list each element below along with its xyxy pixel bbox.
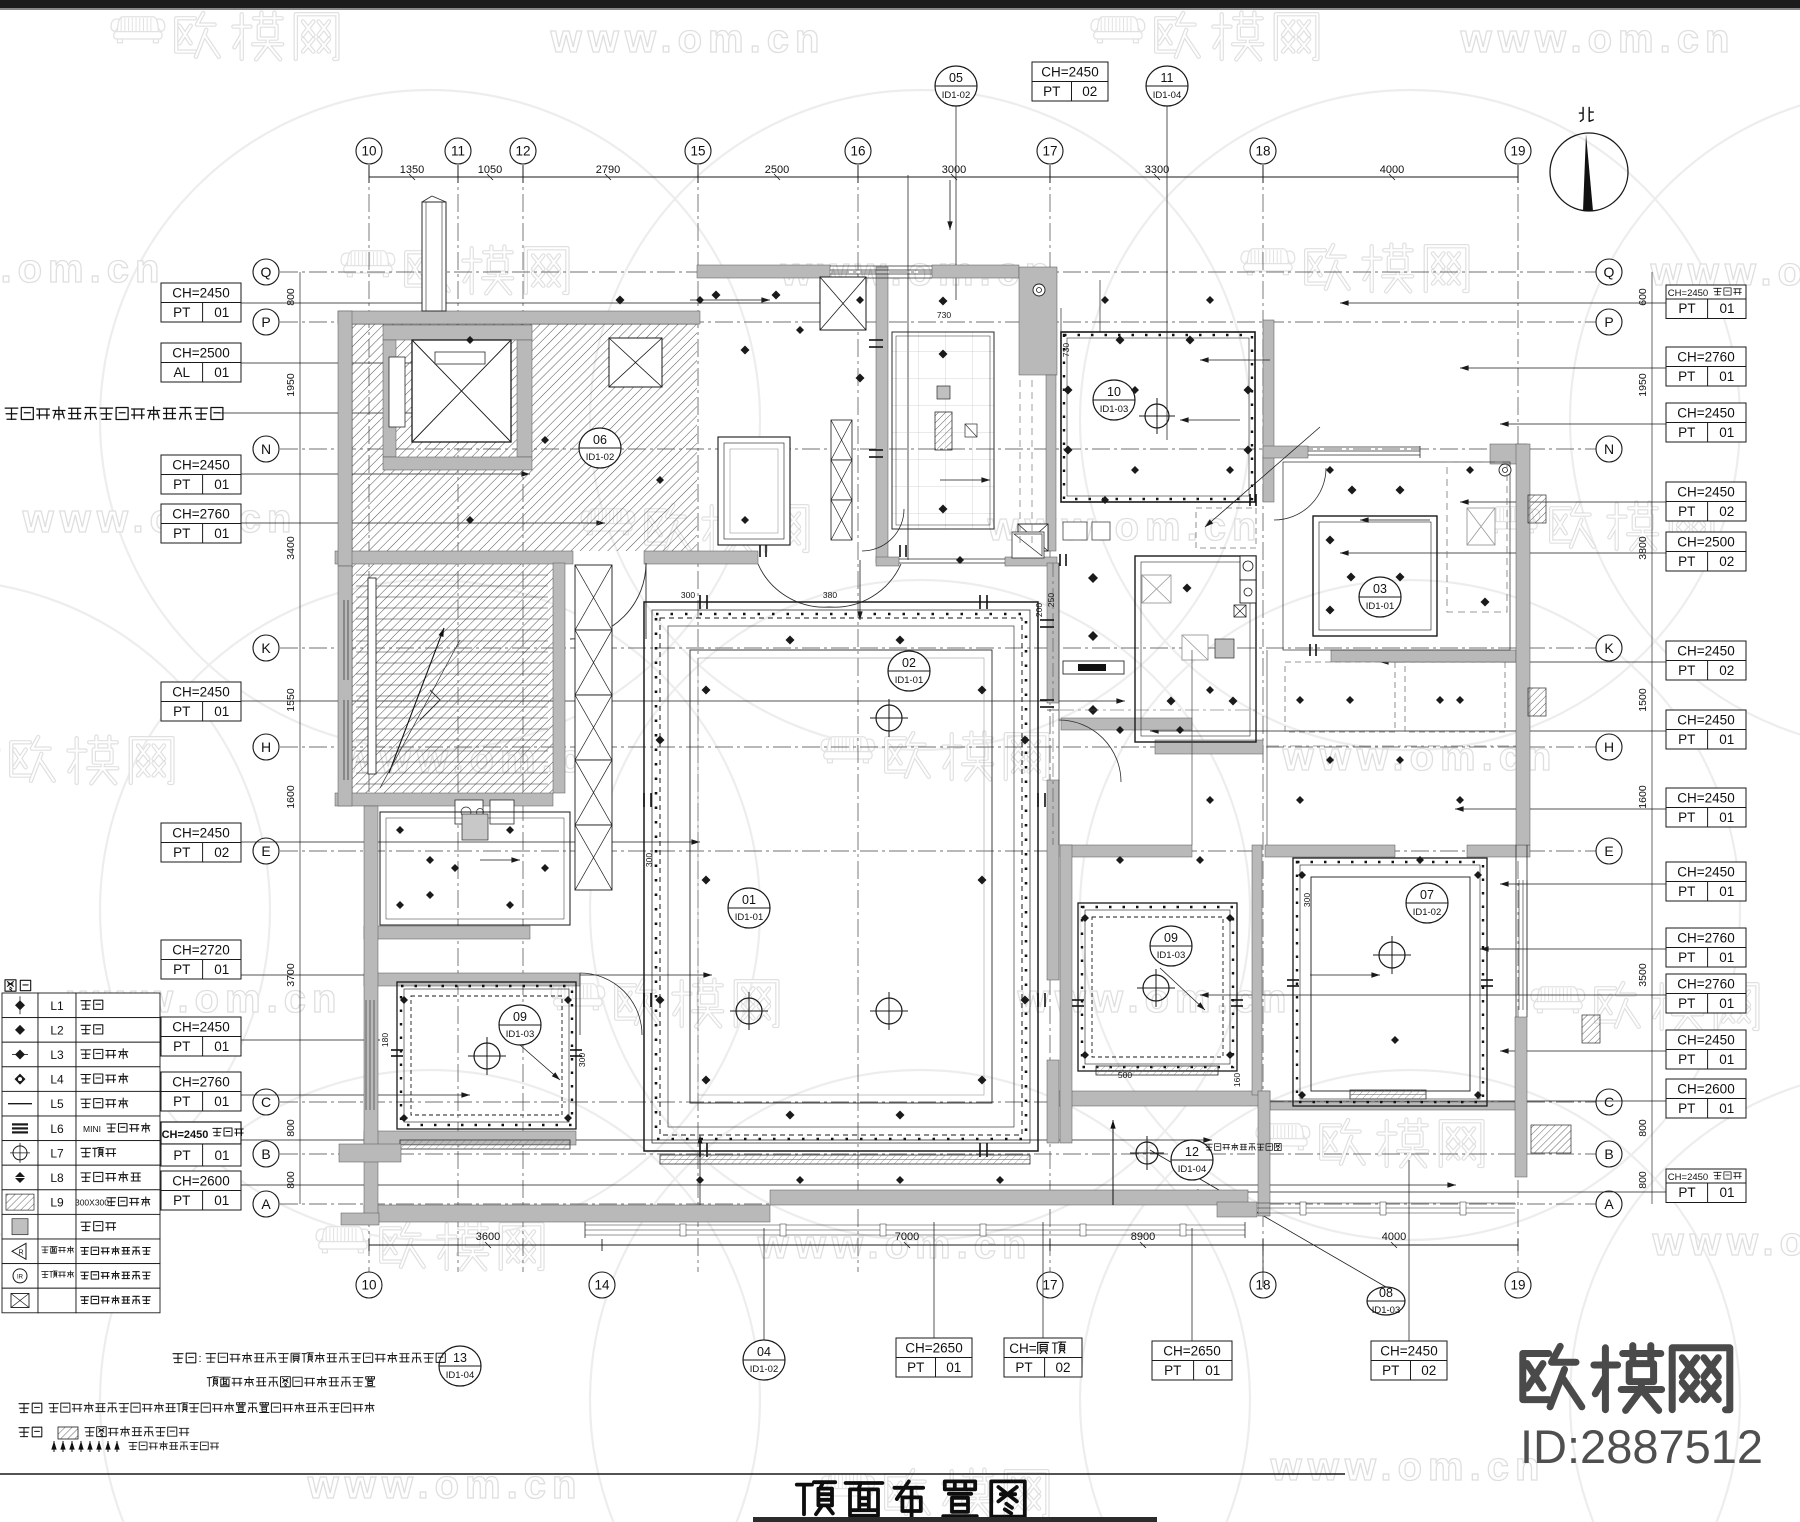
svg-text:www.om.cn: www.om.cn <box>22 497 298 541</box>
svg-text:CH=2450: CH=2450 <box>1677 643 1734 658</box>
right window band <box>1248 1202 1515 1204</box>
svg-text:PT: PT <box>173 477 190 492</box>
left table CH=2720 <box>161 940 241 960</box>
grid bubble 19 top <box>1505 138 1531 164</box>
row bubble P right <box>1596 309 1622 335</box>
row bubble C right <box>1596 1089 1622 1115</box>
kitchen door arc <box>862 509 904 551</box>
svg-text:C: C <box>261 1094 271 1110</box>
svg-text:CH=: CH= <box>1009 1341 1036 1356</box>
svg-text:R: R <box>18 1249 23 1256</box>
svg-text:MINI: MINI <box>83 1124 101 1134</box>
svg-text:02: 02 <box>1719 504 1734 519</box>
svg-text:19: 19 <box>1510 144 1525 159</box>
foyer diamonds <box>712 291 721 300</box>
wall: bottom outer wall right <box>770 1190 1248 1205</box>
svg-text:CH=2450: CH=2450 <box>1677 712 1734 727</box>
svg-text:PT: PT <box>1678 504 1695 519</box>
wall: bath2 bottom right gray <box>1155 740 1263 754</box>
ceiling IR circles <box>1033 284 1045 296</box>
wall: right outer wall upper <box>1516 444 1530 845</box>
svg-text:ID1-01: ID1-01 <box>1366 601 1395 612</box>
svg-text:7000: 7000 <box>895 1231 919 1243</box>
svg-text:01: 01 <box>1719 369 1734 384</box>
wall section mark <box>1528 495 1546 523</box>
svg-text:www.om.cn: www.om.cn <box>1652 1220 1800 1264</box>
row bubble C left <box>253 1089 279 1115</box>
svg-text:www.om.cn: www.om.cn <box>1460 17 1736 61</box>
grid bubble 15 top <box>685 138 711 164</box>
corridor lines <box>1058 563 1060 845</box>
svg-text:730: 730 <box>1061 343 1071 357</box>
wall section mark E <box>1582 1015 1600 1043</box>
arrows extra <box>1160 968 1205 1010</box>
grid bubble 11 top <box>445 138 471 164</box>
left table CH=2600 <box>161 1171 241 1191</box>
right table CH=2450 <box>1666 710 1746 730</box>
svg-text:ID1-01: ID1-01 <box>895 675 924 686</box>
bedroom09 ceiling <box>397 982 576 1129</box>
row bubble E right <box>1596 838 1622 864</box>
row bubble E left <box>253 838 279 864</box>
kitchen corner shelf <box>1012 532 1044 558</box>
svg-text:PT: PT <box>173 1094 190 1109</box>
svg-text:1950: 1950 <box>1637 373 1649 397</box>
svg-text:09: 09 <box>513 1010 527 1024</box>
svg-text:N: N <box>1604 441 1614 457</box>
right table CH=2760 <box>1666 928 1746 948</box>
svg-text:CH=2450: CH=2450 <box>1677 484 1734 499</box>
right wall thin lines <box>1515 845 1517 1017</box>
svg-text:01: 01 <box>214 1039 229 1054</box>
svg-text:17: 17 <box>1042 144 1057 159</box>
right table CH=2450 <box>1666 403 1746 423</box>
wall: master bottom wall <box>1331 650 1516 662</box>
svg-text:380: 380 <box>823 590 837 600</box>
svg-text:CH=2720: CH=2720 <box>172 942 229 957</box>
wall: bottom outer wall left <box>364 1205 770 1222</box>
svg-text:A: A <box>1604 1196 1614 1212</box>
svg-text:CH=2760: CH=2760 <box>1677 930 1734 945</box>
svg-text:18: 18 <box>1255 144 1270 159</box>
svg-text:PT: PT <box>1678 996 1695 1011</box>
wall: study bottom wall <box>364 926 530 939</box>
master closet dashed <box>1447 462 1507 612</box>
svg-text:17: 17 <box>1042 1278 1057 1293</box>
kitchen xbox strip <box>831 420 852 460</box>
svg-text:180: 180 <box>380 1033 390 1047</box>
wall: left outer wall stair <box>338 566 352 806</box>
small fixture boxes hallway <box>1063 522 1087 540</box>
tick clusters <box>699 595 701 609</box>
svg-text:PT: PT <box>1382 1363 1399 1378</box>
svg-text:PT: PT <box>1678 884 1695 899</box>
left table CH=2760 <box>161 504 241 524</box>
svg-text:2500: 2500 <box>765 164 789 176</box>
svg-text:800: 800 <box>1637 1119 1649 1137</box>
svg-text:PT: PT <box>173 1148 190 1163</box>
left leader lines <box>241 302 862 304</box>
note 2 <box>19 1403 42 1413</box>
svg-text:730: 730 <box>937 310 951 320</box>
svg-text:2790: 2790 <box>596 164 620 176</box>
svg-text:L1: L1 <box>50 999 64 1013</box>
svg-text:300X300: 300X300 <box>75 1198 109 1208</box>
svg-text:ID1-04: ID1-04 <box>1153 90 1182 101</box>
svg-text:www.om.cn: www.om.cn <box>1017 977 1293 1021</box>
laundry fixtures <box>455 800 483 824</box>
svg-text:CH=2450: CH=2450 <box>172 285 229 300</box>
svg-text:01: 01 <box>214 526 229 541</box>
curtain boxes along windows <box>660 1155 1030 1164</box>
svg-text:CH=2450: CH=2450 <box>1668 1172 1708 1183</box>
row bubble K right <box>1596 635 1622 661</box>
svg-text:B: B <box>261 1146 270 1162</box>
master window top <box>1308 446 1420 448</box>
svg-text:02: 02 <box>1082 84 1097 99</box>
svg-text:13: 13 <box>453 1351 467 1365</box>
wall: right mid wall a <box>1060 845 1192 857</box>
svg-text:01: 01 <box>946 1360 961 1375</box>
svg-text:10: 10 <box>361 1278 376 1293</box>
title underline <box>753 1517 1157 1522</box>
svg-text:E: E <box>1604 843 1613 859</box>
note 4 arrows <box>53 1441 55 1452</box>
svg-text:PT: PT <box>1678 1052 1695 1067</box>
leader to 08 <box>1150 1150 1386 1287</box>
hatched corridor below <box>352 563 553 793</box>
svg-text:L9: L9 <box>50 1196 64 1210</box>
wall: kitchen bottom seg1 <box>876 557 899 566</box>
legend table <box>5 980 31 991</box>
svg-text:01: 01 <box>1719 884 1734 899</box>
svg-text:11: 11 <box>1161 71 1174 85</box>
svg-text:CH=2450: CH=2450 <box>172 684 229 699</box>
svg-text:1550: 1550 <box>285 688 297 712</box>
window top <box>830 265 932 267</box>
svg-text:L2: L2 <box>50 1023 64 1037</box>
svg-text:300: 300 <box>577 1053 587 1067</box>
svg-text:01: 01 <box>214 1148 229 1163</box>
detail bubble 05/ID1-02 <box>935 66 977 106</box>
row bubble N left <box>253 436 279 462</box>
bath2 wc fixtures <box>1240 556 1256 580</box>
wall: bedroom09 top wall <box>364 973 580 986</box>
door arc master <box>1274 468 1326 520</box>
svg-text:CH=2450: CH=2450 <box>1677 405 1734 420</box>
grid bubble 10 bottom <box>356 1272 382 1298</box>
misc diamonds right zone <box>1206 686 1214 694</box>
svg-text:08: 08 <box>1379 1286 1393 1300</box>
svg-text:3600: 3600 <box>476 1231 500 1243</box>
svg-text:ID1-02: ID1-02 <box>942 90 971 101</box>
svg-text:CH=2450: CH=2450 <box>1668 288 1708 299</box>
room10 ceiling rect <box>1061 332 1255 502</box>
svg-text:02: 02 <box>1719 663 1734 678</box>
svg-text:PT: PT <box>1678 425 1695 440</box>
dim ticks row top <box>409 174 415 180</box>
misc arrows <box>690 299 770 301</box>
svg-text:K: K <box>261 640 271 656</box>
svg-text:01: 01 <box>1719 996 1734 1011</box>
svg-text:ID1-03: ID1-03 <box>506 1029 535 1040</box>
svg-text:CH=2450: CH=2450 <box>1380 1343 1437 1358</box>
grid bubble 18 top <box>1250 138 1276 164</box>
left table CH=2450 <box>161 283 241 303</box>
corridor dashdot lines <box>1052 563 1054 845</box>
room10 tick dims <box>1060 308 1062 332</box>
svg-text:01: 01 <box>1719 1101 1734 1116</box>
row bubble N right <box>1596 436 1622 462</box>
svg-text:01: 01 <box>214 365 229 380</box>
grid bubble 19 bottom <box>1505 1272 1531 1298</box>
detail bubble 13/ID1-04 <box>439 1346 481 1386</box>
kitchen fridge hatch <box>935 412 952 450</box>
left table CH=2450 <box>161 1017 241 1037</box>
detail bubble 08/ID1-03 <box>1367 1287 1405 1315</box>
small leader text center-bottom <box>1206 1143 1282 1150</box>
svg-text:CH=2450: CH=2450 <box>1677 864 1734 879</box>
detail bubble 12/ID1-04 <box>1171 1140 1213 1180</box>
svg-text:01: 01 <box>1719 301 1734 316</box>
svg-text:19: 19 <box>1510 1278 1525 1293</box>
svg-text:ID1-04: ID1-04 <box>1178 1164 1207 1175</box>
svg-text:CH=2450: CH=2450 <box>1677 1032 1734 1047</box>
svg-text:CH=2650: CH=2650 <box>1163 1343 1220 1358</box>
svg-text:PT: PT <box>173 962 190 977</box>
svg-text:L3: L3 <box>50 1048 64 1062</box>
svg-text:3500: 3500 <box>1637 963 1649 987</box>
svg-text:CH=2450: CH=2450 <box>172 825 229 840</box>
row bubble Q right <box>1596 259 1622 285</box>
svg-text:03: 03 <box>1373 582 1387 596</box>
svg-text:PT: PT <box>1678 950 1695 965</box>
svg-text:02: 02 <box>902 656 916 670</box>
wall: living right wall seg1 <box>1047 563 1059 703</box>
svg-text:PT: PT <box>1678 732 1695 747</box>
right table CH=2500 <box>1666 532 1746 552</box>
detail bubble 11/ID1-04 <box>1146 66 1188 106</box>
svg-text:05: 05 <box>949 71 963 85</box>
shaft x-boxes column <box>575 565 612 630</box>
row bubble A left <box>253 1191 279 1217</box>
detail bubble 09/ID1-03 right <box>1150 926 1192 966</box>
bedroom3 window right <box>1518 880 1520 1010</box>
master corner circle <box>1499 464 1511 476</box>
stair treads <box>356 574 548 576</box>
svg-text:P: P <box>261 314 270 330</box>
detail bubble 01/ID1-01 <box>728 888 770 928</box>
big om logo <box>1523 1346 1730 1411</box>
svg-text:CH=2450: CH=2450 <box>1041 64 1098 79</box>
svg-text:01: 01 <box>214 962 229 977</box>
detail bubble 06/ID1-02 <box>579 428 621 468</box>
svg-text:01: 01 <box>1719 1185 1734 1200</box>
wall: bedroom2-3 divider <box>1252 845 1262 1095</box>
study ceiling <box>380 812 570 925</box>
master bedroom room outline <box>1283 462 1510 650</box>
stair arrow <box>389 628 444 773</box>
svg-text:CH=2600: CH=2600 <box>172 1173 229 1188</box>
grid bubble 12 top <box>510 138 536 164</box>
svg-text:IR: IR <box>17 1274 24 1280</box>
svg-text:1600: 1600 <box>1637 785 1649 809</box>
wall: stair right wall <box>553 563 565 793</box>
svg-text:8900: 8900 <box>1131 1231 1155 1243</box>
bath2 vent <box>1142 575 1171 603</box>
svg-text:250: 250 <box>1046 593 1056 607</box>
elevator shaft <box>412 340 511 442</box>
svg-text:1950: 1950 <box>285 373 297 397</box>
wall section mark <box>1528 688 1546 716</box>
svg-text:PT: PT <box>1678 810 1695 825</box>
svg-text:12: 12 <box>515 144 530 159</box>
wall: right outer wall lower gray <box>1515 1017 1527 1177</box>
svg-text:ID1-03: ID1-03 <box>1372 1305 1401 1316</box>
living lamps <box>736 998 762 1024</box>
grid bubble 17 bottom <box>1037 1272 1063 1298</box>
svg-text:ID1-02: ID1-02 <box>1413 907 1442 918</box>
xbox kitchen pass <box>1018 524 1048 551</box>
svg-text:CH=2760: CH=2760 <box>172 506 229 521</box>
title dingmian buzhi tu <box>797 1481 1025 1517</box>
row bubble K left <box>253 635 279 661</box>
svg-text:01: 01 <box>1719 1052 1734 1067</box>
wall: living right wall seg2 <box>1047 780 1059 980</box>
svg-text:4000: 4000 <box>1382 1231 1406 1243</box>
row bubble B left <box>253 1141 279 1167</box>
svg-text:PT: PT <box>1678 554 1695 569</box>
svg-text:4000: 4000 <box>1380 164 1404 176</box>
svg-text:09: 09 <box>1164 931 1178 945</box>
wall: kitchen bottom seg2 <box>1005 557 1057 566</box>
svg-text:01: 01 <box>742 893 756 907</box>
svg-text:H: H <box>261 739 271 755</box>
living ceiling dashed band <box>660 618 1022 1135</box>
bedroom09 window left <box>365 1000 367 1110</box>
svg-text:L7: L7 <box>50 1146 64 1160</box>
svg-text:PT: PT <box>1678 1101 1695 1116</box>
svg-text::: : <box>198 1353 201 1365</box>
hatch boundary lines <box>352 323 697 325</box>
row bubble B right <box>1596 1141 1622 1167</box>
duct stub <box>422 202 446 311</box>
svg-text:www.om.cn: www.om.cn <box>307 1463 583 1507</box>
svg-text:01: 01 <box>1719 810 1734 825</box>
svg-text:CH=2760: CH=2760 <box>1677 349 1734 364</box>
svg-text:800: 800 <box>1637 1171 1649 1189</box>
svg-text:CH=2760: CH=2760 <box>172 1074 229 1089</box>
svg-text:L6: L6 <box>50 1122 64 1136</box>
corridor door arcs right <box>1059 720 1121 782</box>
wall: living right wall seg3 <box>1047 1060 1059 1143</box>
wall: bath2 bottom wall <box>1061 718 1192 730</box>
svg-text:01: 01 <box>1719 425 1734 440</box>
svg-text:PT: PT <box>173 1039 190 1054</box>
xbox foyer <box>609 338 662 387</box>
svg-text:N: N <box>261 441 271 457</box>
living inner rect <box>690 650 992 1103</box>
detail bubble 10/ID1-03 <box>1093 380 1135 420</box>
hatched entry zone <box>352 324 697 551</box>
svg-text:CH=2450: CH=2450 <box>1677 790 1734 805</box>
left table CH=2450 <box>161 455 241 475</box>
wall: kitchen corner column <box>1019 267 1057 375</box>
kitchen pass lines <box>899 558 1005 560</box>
svg-text:AL: AL <box>174 365 191 380</box>
bottom-left wall step <box>339 1144 401 1162</box>
left dimension labels <box>299 272 301 1204</box>
svg-text:10: 10 <box>1107 385 1121 399</box>
right table CH=2450(jiangbandi) <box>1666 285 1746 299</box>
wall: stair bottom wall <box>335 793 553 806</box>
row bubble H left <box>253 734 279 760</box>
stair break line <box>420 700 440 720</box>
window double lines on left outer wall <box>343 600 345 680</box>
svg-text:A: A <box>261 1196 271 1212</box>
detail bubble 03/ID1-01 <box>1359 577 1401 617</box>
svg-text:01: 01 <box>214 1094 229 1109</box>
svg-text:160: 160 <box>1232 1073 1242 1087</box>
wall: master top stub <box>1263 446 1308 458</box>
detail bubble 02/ID1-01 <box>888 651 930 691</box>
svg-text:07: 07 <box>1420 888 1434 902</box>
wall: foyer-kitchen divider <box>876 267 888 563</box>
diag leader <box>1205 427 1320 527</box>
extra density 2 <box>466 336 474 344</box>
elevator shaft walls <box>383 325 532 340</box>
wardrobe dashed <box>1196 508 1256 548</box>
svg-text:01: 01 <box>214 477 229 492</box>
svg-text:PT: PT <box>173 526 190 541</box>
top table CH=2450/PT02 <box>1032 62 1108 82</box>
svg-text:L8: L8 <box>50 1171 64 1185</box>
note cihwei sanheng guandao <box>5 407 223 420</box>
detail bubble 04/ID1-02 <box>743 1340 785 1380</box>
svg-text:L4: L4 <box>50 1073 64 1087</box>
svg-text:ID1-01: ID1-01 <box>735 912 764 923</box>
grid bubble 18 bottom <box>1250 1272 1276 1298</box>
svg-text:PT: PT <box>1164 1363 1181 1378</box>
svg-text:16: 16 <box>850 144 865 159</box>
left table CH=2500 <box>161 343 241 363</box>
svg-text:PT: PT <box>173 1193 190 1208</box>
svg-text:CH=2500: CH=2500 <box>172 345 229 360</box>
right leader lines <box>1340 302 1666 304</box>
top-left small notch <box>422 196 432 202</box>
svg-text:06: 06 <box>593 433 607 447</box>
left table CH=2450 <box>161 823 241 843</box>
right zone corridor lines <box>1191 650 1193 845</box>
wall: top wall right segment <box>932 265 1019 278</box>
svg-text:01: 01 <box>1205 1363 1220 1378</box>
svg-text:3400: 3400 <box>285 536 297 560</box>
north compass <box>1550 133 1628 211</box>
wall: left outer wall lower <box>364 806 378 1222</box>
wall: master top corner block <box>1490 444 1527 464</box>
bedroom2 ceiling <box>1078 903 1237 1071</box>
svg-text:CH=2450: CH=2450 <box>162 1129 209 1141</box>
balcony posts <box>680 1224 686 1236</box>
bottom tables <box>896 1338 972 1358</box>
svg-text:800: 800 <box>285 1171 297 1189</box>
svg-text:ID1-04: ID1-04 <box>446 1370 475 1381</box>
svg-text:15: 15 <box>690 144 705 159</box>
right table CH=2450 <box>1666 482 1746 502</box>
right table CH=2450(jiangbandi) <box>1666 1169 1746 1183</box>
svg-text:CH=2450: CH=2450 <box>172 1019 229 1034</box>
svg-text:Q: Q <box>261 264 272 280</box>
